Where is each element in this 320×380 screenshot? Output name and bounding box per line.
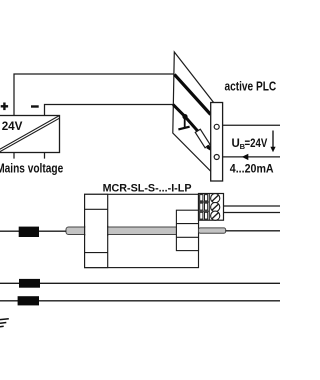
- isolator module body (top view): [85, 194, 199, 267]
- shield clamp (ferrite) on cable 2: [19, 279, 40, 288]
- cable lead-in wire left: [0, 230, 66, 232]
- board trace 2 (supply - to load resistor): [173, 105, 185, 117]
- svg-text:U: U: [232, 138, 240, 150]
- output wire b: [224, 212, 281, 214]
- current arrow to pin 2: [207, 146, 209, 148]
- tap branch on card: [184, 117, 186, 128]
- ground (earth symbol, clipped at left edge): [0, 319, 9, 327]
- clamp cage stripes: [199, 194, 210, 221]
- cable lead-out wire right: [226, 230, 281, 232]
- down arrow (voltage drop UB): [272, 131, 274, 148]
- terminal screw 2: [211, 203, 220, 212]
- mains lead stub N: [44, 153, 46, 159]
- wire from + terminal up and right to PLC card: [14, 74, 174, 116]
- shield clamp (ferrite) on cable 3: [18, 296, 39, 305]
- PLC input card (3D board outline): [173, 52, 214, 175]
- signal cable 3: [0, 300, 280, 302]
- module left terminal column: [85, 194, 108, 267]
- load resistor RB on card: [195, 129, 210, 148]
- junction node on card: [182, 114, 187, 119]
- shield clamp (ferrite) on cable 1: [19, 227, 39, 237]
- terminal screw 3: [211, 211, 220, 220]
- mains lead stub L: [13, 153, 15, 159]
- svg-text:4...20mA: 4...20mA: [230, 162, 274, 176]
- terminal + (positive output of supply): [1, 103, 8, 111]
- terminal - (negative output of supply): [31, 105, 39, 107]
- output wire a: [224, 205, 281, 207]
- wire from - terminal up and right to PLC card: [45, 105, 174, 116]
- power supply AC/DC divider diagonal (double line): [0, 116, 60, 153]
- power supply U1 (24V DC source, clipped at left edge): [0, 116, 60, 153]
- wire 4...20mA signal to pin 2: [223, 156, 280, 158]
- signal cable 2: [0, 282, 280, 284]
- pin 2: [214, 155, 219, 160]
- left column covers cable: [85, 226, 107, 236]
- board trace 1 (supply + to pin 1): [174, 74, 210, 114]
- screw terminal block at module output: [199, 194, 224, 221]
- svg-text:Mains voltage: Mains voltage: [0, 162, 63, 176]
- board trace 3 (junction to load resistor): [185, 117, 198, 132]
- PLC connector strip: [211, 103, 223, 182]
- svg-text:=24V: =24V: [245, 138, 268, 150]
- svg-text:24V: 24V: [2, 119, 23, 133]
- arrowhead current direction into pin 2: [242, 154, 249, 160]
- svg-text:MCR-SL-S-...-I-LP: MCR-SL-S-...-I-LP: [103, 182, 192, 194]
- wire UB supply from pin 1: [223, 124, 280, 126]
- module right inner section: [176, 210, 198, 250]
- svg-text:active PLC: active PLC: [225, 79, 277, 93]
- shielded cable tail (gray) out of module right: [199, 228, 226, 233]
- shielded cable (gray sleeve) across module: [66, 227, 178, 235]
- tap contact bar: [178, 127, 189, 130]
- pin 1: [214, 124, 219, 129]
- terminal screw 1: [211, 194, 220, 203]
